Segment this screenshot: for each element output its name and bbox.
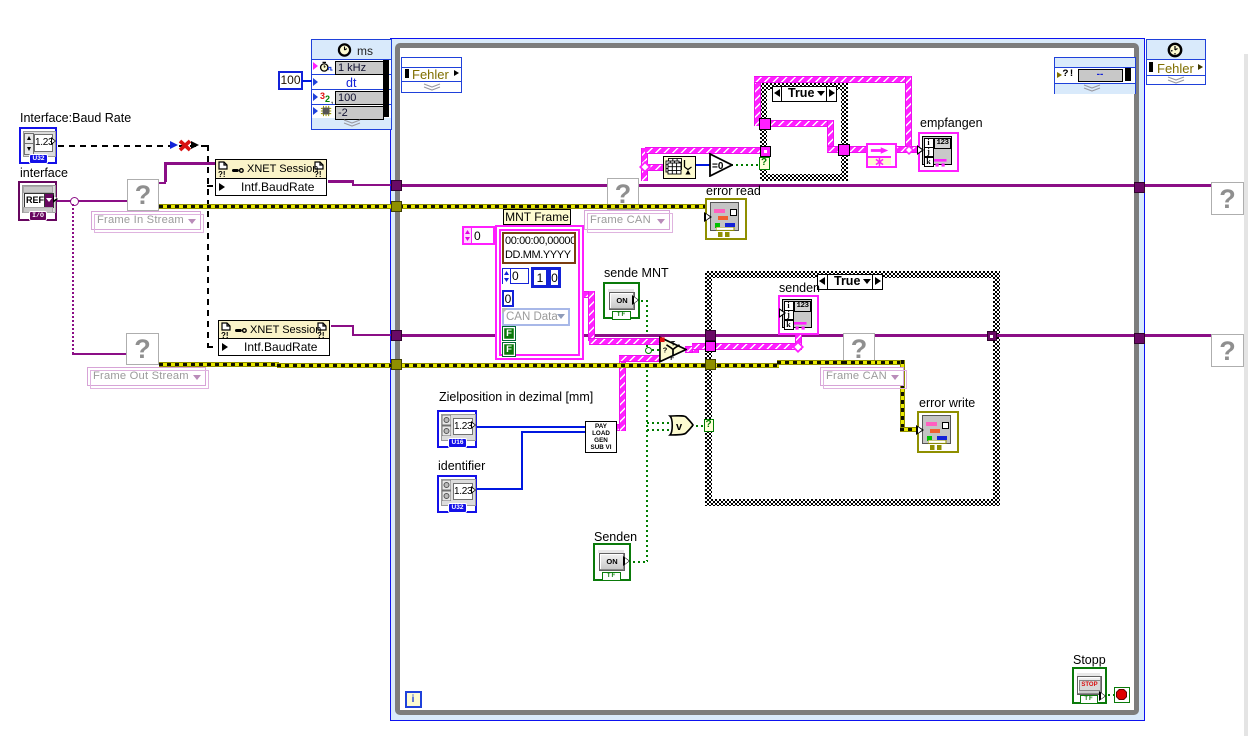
Fehler input node (inside loop, top-left) [401, 57, 462, 93]
wire: pink wrap: top horizontal [754, 76, 912, 83]
window right edge strip [1244, 54, 1248, 736]
control: identifier (U32 numeric) [437, 475, 477, 513]
junction: green ring [645, 347, 652, 354]
label interface [20, 166, 68, 180]
wire: pink case out through converter to empfangen [848, 146, 920, 153]
wire: purple Q1 to node1 [159, 182, 166, 185]
wire: pink senden drop [795, 333, 802, 347]
dropdown Frame Out Stream [87, 367, 206, 386]
svg-text:?!: ?! [221, 331, 229, 338]
svg-text:?!: ?! [218, 170, 226, 177]
missing VI Q6 (right lower) [1211, 334, 1244, 367]
empty array? icon [663, 156, 696, 179]
timed loop config node (ms) [311, 39, 392, 130]
constant 0 (index, left of cluster) [462, 226, 495, 245]
=0 comparison [709, 153, 733, 177]
olive wire over Q3 [607, 204, 639, 209]
wire: blue identifier to payload [477, 488, 523, 490]
control: interface (XNET session REF) [18, 181, 57, 221]
label sende MNT [604, 266, 669, 280]
subVI: PAYLOAD GEN [585, 421, 617, 453]
dropdown Frame CAN (upper) [584, 210, 670, 230]
wire: dashed stub to node2 [207, 346, 220, 348]
wire: green to select s [647, 349, 660, 351]
case structure (receive, top) [760, 83, 848, 181]
case structure (send, inner) [705, 271, 1000, 506]
junction: pink diamond at Q3 [639, 161, 651, 173]
wire: green sende MNT chain vertical [646, 300, 648, 562]
OR gate [668, 415, 694, 436]
loop stop terminal [1114, 687, 1130, 703]
missing VI Q4 (Frame CAN write) [843, 333, 875, 365]
wire: purple node2 to loop (lower) [331, 325, 354, 328]
wire: pink payload to select f [616, 424, 626, 431]
wire: green Senden to chain [633, 561, 647, 563]
label MNT Frame [503, 209, 571, 225]
tunnel: purple loop-left upper [391, 180, 402, 191]
case selector (True, top) [772, 86, 837, 102]
wire: pink wrap: right vertical down to empfangen wire [905, 76, 912, 151]
svg-text:v: v [676, 421, 683, 433]
svg-text:=0: =0 [712, 161, 724, 172]
wire: olive error upper (Q1 to error read) [159, 204, 706, 209]
control: sende MNT button [603, 282, 640, 319]
wire: pink junction up to case small tunnel [645, 147, 762, 154]
tunnel: olive loop-left upper [391, 201, 402, 212]
loop iteration terminal i [405, 691, 422, 708]
dropdown Frame In Stream [91, 211, 201, 230]
constant 100 [278, 71, 303, 90]
wire: pink Q3 up to junction [641, 148, 648, 181]
wire: dashed stub to node1 [207, 185, 216, 187]
wire: pink MNT cluster to select t [584, 291, 595, 298]
tunnel: green selector ? on receive case [759, 157, 770, 170]
control: Interface:Baud Rate (U32 numeric) [19, 127, 57, 164]
control: Senden button [593, 543, 631, 581]
indicator: error read [705, 198, 747, 240]
wire: purple upper inside loop to Q5 [400, 184, 1211, 187]
wire: purple REF to Q1 [56, 200, 127, 203]
wire: dashed baud-rate wire (broken) horizontal [58, 145, 208, 147]
wire: green sende MNT out [641, 300, 647, 302]
case selector (True, inner) [817, 274, 883, 290]
tunnel: purple loop-left lower [391, 330, 402, 341]
missing VI Q5 (right upper) [1211, 182, 1244, 215]
control: Zielposition (U16 numeric) [437, 410, 477, 448]
label identifier [438, 459, 485, 473]
control: Stopp button [1072, 667, 1107, 704]
wire: pink select out to inner case [685, 346, 695, 353]
svg-text:T: T [671, 340, 675, 347]
wire: dashed vertical drop [207, 145, 209, 347]
missing VI Q3 (Frame CAN read) [607, 178, 639, 210]
MNT Frame cluster constant [495, 225, 584, 360]
tunnel: purple loop-right lower [1134, 333, 1145, 344]
wire: blue empty-array to =0 [694, 164, 711, 166]
right data node of timed loop [1054, 57, 1136, 94]
junction: pink diamond at wrap join [904, 145, 914, 155]
XNET Session property node 2 [218, 320, 330, 356]
wire: olive inside case jog up [777, 360, 904, 365]
wire: green Stopp to loop stop terminal [1108, 694, 1115, 696]
wire: purple node1 to loop (upper) [328, 180, 354, 183]
indicator: empfangen (array of cluster) [918, 132, 959, 172]
wire: olive error lower (Q2 to inner case) [159, 362, 279, 367]
missing VI Q2 (Frame Out Stream) [126, 333, 159, 365]
wire: green to OR top input [647, 422, 671, 424]
junction: pink diamond at senden [792, 341, 804, 353]
label Stopp [1073, 653, 1106, 667]
wire: pink inside receive case [768, 120, 834, 127]
converter icon (arrow / asterisk) [866, 143, 897, 168]
label error write [919, 396, 975, 410]
indicator: error write [917, 411, 959, 453]
label Senden [594, 530, 637, 544]
missing VI Q1 (Frame In Stream) [127, 179, 159, 211]
label Interface:Baud Rate [20, 111, 131, 125]
junction ring on purple [70, 197, 79, 206]
wire: pink inside case to senden [714, 343, 802, 350]
indicator: senden (array of cluster) [778, 295, 819, 335]
tunnel: green selector ? inner case [704, 419, 714, 432]
tunnel: pink on receive case right [838, 144, 850, 156]
wire: green OR out to case selector tunnel [691, 425, 705, 427]
dropdown Frame CAN (inner) [820, 367, 904, 386]
wire: purple vertical down-left [72, 204, 74, 353]
Fehler output node with clock (outside loop, right) [1146, 39, 1206, 85]
label senden [779, 281, 820, 295]
wire: green =0 to case selector [731, 164, 759, 166]
tunnel: purple-dot inner case right [987, 331, 997, 341]
tunnel: pink big on receive case left [759, 118, 771, 130]
tunnel: purple inner case left [705, 330, 716, 341]
wire: purple to Q2 [72, 353, 127, 356]
XNET Session property node 1 [215, 159, 327, 196]
timed loop frame [390, 38, 1145, 721]
wire: pink wrap: left vertical [754, 76, 761, 126]
wire: purple lower inside loop to Q6 [400, 334, 1211, 337]
wire 100 to dt [302, 80, 312, 82]
label empfangen [920, 116, 983, 130]
broken wire marks: blue arrow, red X, black arrow [170, 141, 178, 149]
label Zielposition [439, 390, 593, 404]
tunnel: pink inner case left [705, 341, 716, 352]
tunnel: purple loop-right upper [1134, 182, 1145, 193]
olive wire over Q4 [843, 360, 875, 365]
tunnel: olive inner case left [705, 359, 716, 370]
svg-text:?: ? [663, 345, 668, 354]
tunnel: pink small with dot on receive case left [760, 146, 771, 157]
svg-text:F: F [670, 355, 674, 362]
wire: olive vertical to error write [900, 360, 905, 429]
wire: pink junction to empty-array icon [645, 164, 664, 171]
select node [659, 336, 687, 363]
tunnel: olive loop-left lower [391, 359, 402, 370]
wire: green to OR bottom input [647, 429, 671, 431]
wire: olive horiz to error write [900, 427, 918, 432]
label error read [706, 184, 761, 198]
wire: blue Zielposition to payload [476, 426, 586, 428]
